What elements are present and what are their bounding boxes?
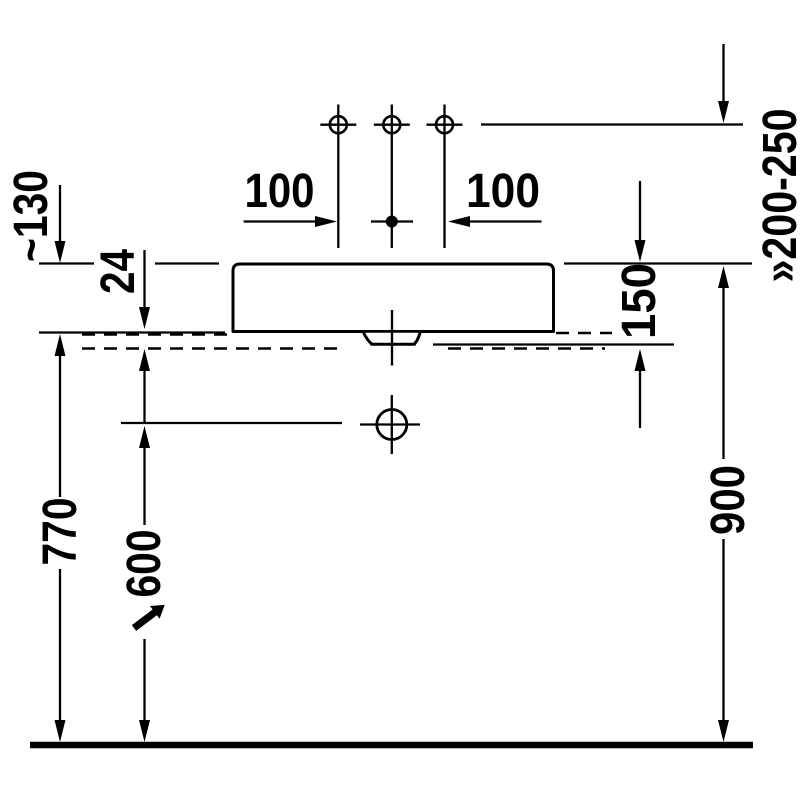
- drain outlet circle: [377, 410, 407, 440]
- svg-text:100: 100: [245, 165, 315, 218]
- dimension 600 line: [143, 448, 145, 721]
- console-to-drain stem: [143, 370, 145, 422]
- drain level dimension line: [121, 422, 342, 424]
- console dashed line lower left: [82, 347, 340, 349]
- dimension 150 bottom arrow: [639, 370, 641, 428]
- faucet level extension line: [481, 123, 743, 125]
- washbasin body: [233, 264, 554, 332]
- dimension ~130 arrow: [59, 185, 61, 242]
- dimension 900 line: [722, 287, 724, 721]
- rim level extension line left: [155, 262, 219, 264]
- svg-text:900: 900: [702, 465, 755, 535]
- svg-text:600: 600: [118, 530, 171, 598]
- right solid line: [433, 343, 674, 345]
- svg-text:24: 24: [92, 249, 145, 294]
- rim level tick left: [39, 262, 94, 264]
- dimension 200-250 top arrow: [722, 44, 724, 102]
- drain crosshair vertical upper: [391, 310, 393, 366]
- rim level extension line right: [564, 262, 752, 264]
- dimension 24 arrow: [143, 250, 145, 308]
- under-basin solid line left: [39, 331, 225, 333]
- adjustable height arrow glyph: [129, 598, 169, 634]
- svg-text:100: 100: [466, 165, 540, 218]
- drain boss under basin: [364, 333, 421, 345]
- center dot horizontal line: [371, 220, 413, 222]
- floor line: [30, 742, 753, 749]
- dimension 100 left arrow line: [244, 220, 316, 222]
- faucet hole circle right: [436, 116, 453, 133]
- console dashed line lower right: [448, 347, 605, 349]
- faucet hole circle middle: [383, 116, 400, 133]
- console dashed line upper: [82, 333, 228, 335]
- faucet crosshair lines: [320, 105, 462, 249]
- center reference dot: [386, 216, 398, 228]
- faucet hole circle left: [330, 116, 347, 133]
- dimension 150 top arrow: [639, 181, 641, 241]
- svg-text:~130: ~130: [5, 170, 58, 262]
- drain crosshair horizontal: [360, 423, 420, 425]
- drain crosshair vertical: [391, 395, 393, 454]
- svg-text:»200-250: »200-250: [754, 109, 800, 283]
- svg-text:770: 770: [34, 498, 87, 566]
- dimension 100 right arrow line: [469, 220, 542, 222]
- svg-text:150: 150: [613, 263, 666, 339]
- dimension 770 line: [59, 355, 61, 721]
